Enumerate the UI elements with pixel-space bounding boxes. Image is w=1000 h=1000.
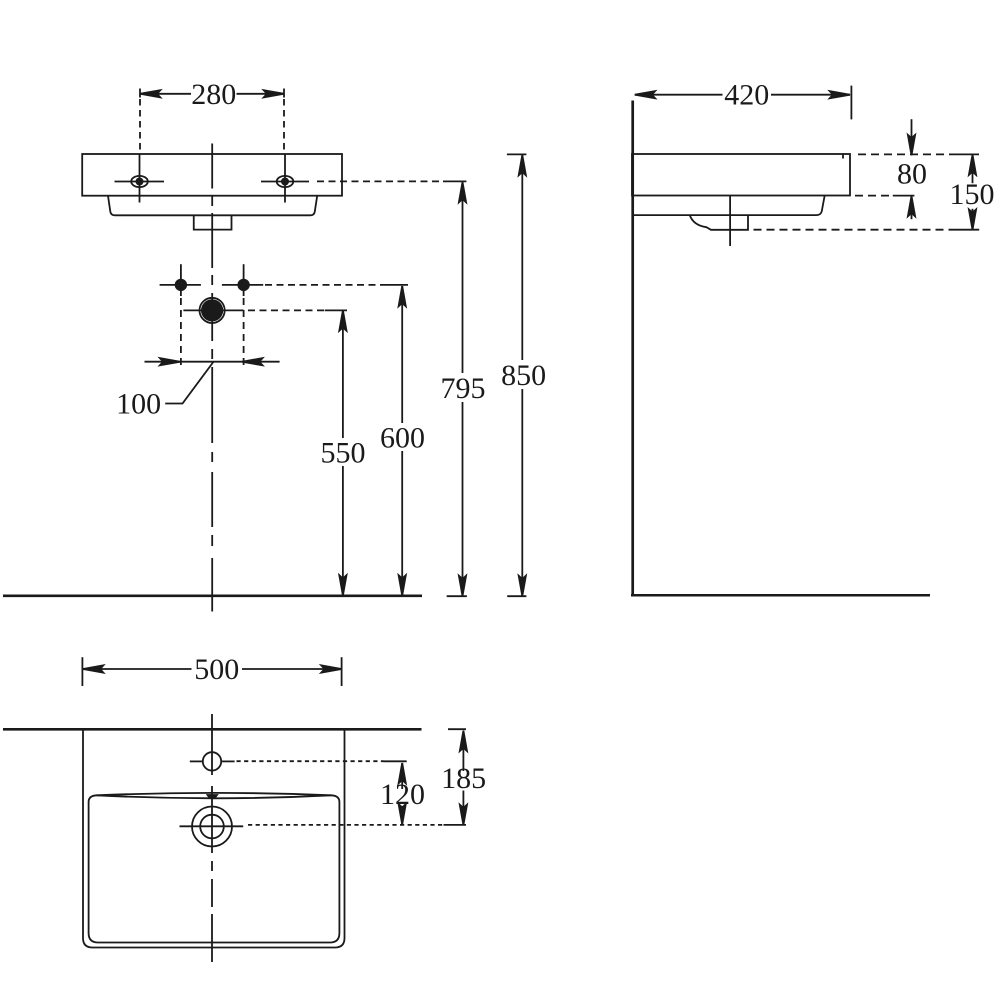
svg-text:185: 185 xyxy=(441,762,486,795)
svg-text:850: 850 xyxy=(501,359,546,392)
svg-text:550: 550 xyxy=(321,436,366,469)
svg-text:150: 150 xyxy=(950,178,995,211)
svg-text:795: 795 xyxy=(441,372,486,405)
svg-text:500: 500 xyxy=(194,653,239,686)
svg-text:420: 420 xyxy=(724,79,769,112)
svg-text:600: 600 xyxy=(380,421,425,454)
svg-text:100: 100 xyxy=(116,388,161,421)
svg-text:280: 280 xyxy=(191,78,236,111)
svg-text:80: 80 xyxy=(897,158,927,191)
svg-text:120: 120 xyxy=(380,778,425,811)
